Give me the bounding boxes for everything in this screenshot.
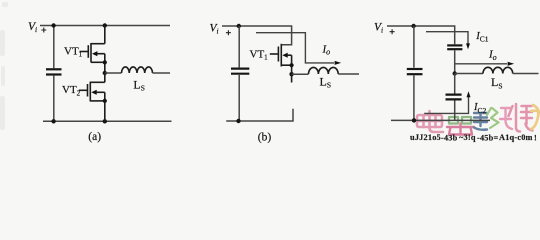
wire bottom rail (a)	[43, 120, 172, 122]
watermark glyph 5	[509, 104, 533, 132]
svg-text:(b): (b)	[258, 131, 272, 143]
wire bottom rail (c)	[391, 119, 490, 121]
wire node to C2 (c)	[454, 74, 456, 94]
transistor VT1 (b)	[270, 44, 294, 83]
svg-text:!: !	[534, 134, 537, 143]
transistor VT2 (a)	[79, 73, 107, 121]
wire left leg lower (a)	[53, 76, 55, 122]
svg-text:uJJ21o5: uJJ21o5	[410, 133, 441, 142]
watermark glyph 6	[531, 105, 540, 129]
watermark small text row	[410, 133, 537, 142]
label plus (a)	[41, 28, 46, 33]
capacitor C (b)	[231, 69, 249, 74]
node dot bottom-left (c)	[412, 118, 416, 122]
wire midpoint to inductor (a)	[105, 72, 122, 74]
capacitor C (a)	[46, 69, 62, 74]
capacitor C (c)	[407, 69, 423, 74]
current annotation IC2 (c)	[424, 91, 470, 113]
watermark glyph 3	[474, 113, 487, 130]
wire node to inductor (c)	[455, 73, 483, 75]
wire top rail (a)	[40, 25, 170, 27]
node dot top-left (c)	[411, 24, 415, 28]
node dot top-mid (a)	[103, 23, 107, 27]
inductor LS (c)	[483, 67, 513, 73]
svg-text:A1q-c0m: A1q-c0m	[499, 133, 533, 142]
inductor LS (b)	[309, 67, 339, 74]
current annotation Io (b)	[256, 33, 341, 65]
svg-text:~3!q: ~3!q	[459, 133, 476, 142]
svg-text:(a): (a)	[88, 131, 101, 143]
node dot bottom-mid (a)	[103, 119, 107, 123]
wire inductor to right end (a)	[153, 72, 171, 74]
watermark glyph 2	[449, 117, 471, 124]
scan smudge left edge	[0, 2, 8, 130]
wire left leg upper (b)	[238, 26, 240, 67]
wire node to inductor (b)	[292, 73, 309, 75]
node dot top-left (a)	[51, 23, 55, 27]
wire inductor to right end (b)	[338, 73, 359, 75]
current annotation Io (c)	[455, 62, 515, 66]
wire bottom rail with port stub (b)	[226, 109, 293, 121]
wire top rail into C1 branch (c)	[387, 26, 455, 44]
wire C1 to node (c)	[454, 50, 456, 73]
node dot midpoint (b)	[289, 72, 293, 76]
capacitor C1 (c)	[447, 45, 462, 49]
svg-text:-43b: -43b	[441, 134, 458, 143]
wire C2 to bottom rail (c)	[454, 101, 456, 121]
watermark glyph 4	[487, 108, 499, 128]
node dot bottom-left (a)	[51, 119, 55, 123]
inductor LS (a)	[122, 67, 153, 73]
node dot midpoint (c)	[453, 71, 457, 75]
current annotation IC1 (c)	[426, 32, 470, 50]
wire left leg lower (c)	[413, 75, 415, 120]
watermark glyph 1	[417, 111, 443, 132]
capacitor C2 (c)	[446, 95, 462, 100]
label plus (c)	[390, 29, 395, 34]
label plus (b)	[226, 30, 231, 35]
node dot midpoint (a)	[103, 71, 107, 75]
transistor VT1 (a)	[80, 26, 107, 74]
wire left leg upper (c)	[413, 26, 415, 68]
wire left leg lower (b)	[238, 75, 240, 121]
wire left leg upper (a)	[53, 26, 55, 69]
svg-text:-45b=: -45b=	[477, 134, 498, 143]
wire top rail into drain (b)	[222, 26, 292, 45]
node dot bottom-left (b)	[236, 119, 240, 123]
wire inductor to right edge (c)	[513, 73, 539, 75]
node dot top-left (b)	[237, 24, 241, 28]
